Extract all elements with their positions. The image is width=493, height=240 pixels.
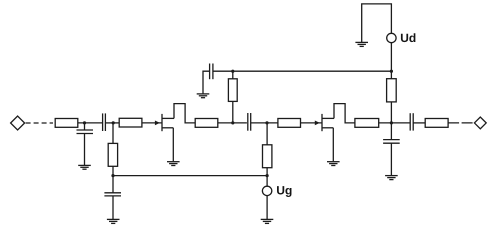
resistor R7 (gate2 series) bbox=[278, 119, 301, 128]
label Ug bbox=[277, 186, 291, 197]
wire Ug rail bbox=[113, 175, 267, 177]
wire C1 to R3 bbox=[105, 122, 119, 124]
wire R7 to gate2 bbox=[301, 122, 323, 124]
resistor R4 (drain1) bbox=[195, 119, 218, 128]
wire C2 to ground bbox=[84, 134, 86, 166]
node drain2 feed bbox=[390, 121, 393, 124]
wire source1 lead bbox=[172, 128, 174, 162]
wire dashed input bbox=[26, 122, 53, 124]
transistor Q2 (MESFET) bbox=[322, 114, 334, 131]
wire node down to C6 bbox=[390, 123, 392, 140]
resistor R8 (drain2) bbox=[355, 119, 379, 128]
wire Ug to ground bbox=[266, 196, 268, 219]
node gate2 bias tap bbox=[265, 121, 268, 124]
resistor R1 bbox=[55, 119, 78, 128]
wire node up to R5 bbox=[232, 101, 234, 123]
node rail/Ud bbox=[390, 70, 393, 73]
wire node up to R9 bbox=[390, 102, 392, 123]
ground (below Ug) bbox=[261, 219, 274, 223]
wire Ud top loop bbox=[362, 4, 392, 42]
capacitor C6 (output bias bypass) bbox=[383, 140, 400, 144]
resistor R9 (drain feed, vertical) bbox=[387, 79, 397, 102]
node drain1 feed bbox=[231, 121, 234, 124]
wire C7 to R10 bbox=[413, 122, 425, 124]
capacitor C4 (rail bypass) bbox=[210, 64, 213, 80]
wire top supply rail bbox=[213, 70, 392, 72]
node at R1/C2 junction bbox=[83, 121, 86, 124]
capacitor C3 (bias bypass to ground) bbox=[104, 193, 121, 196]
ground (below C2) bbox=[78, 165, 91, 169]
source Ud (circle) bbox=[387, 33, 396, 42]
wire R2 to node B bbox=[112, 166, 114, 175]
arrow into gate1 bbox=[155, 121, 160, 126]
wire C3 to ground bbox=[112, 196, 114, 219]
wire R5 to top rail bbox=[232, 71, 234, 79]
ground (Ud return) bbox=[355, 42, 368, 46]
wire R6 to Ug node bbox=[266, 168, 268, 176]
wire node B down to C3 bbox=[112, 176, 114, 193]
ground (below C6) bbox=[385, 176, 398, 180]
wire dashed output bbox=[448, 122, 474, 124]
wire node A down to R2 bbox=[112, 123, 114, 143]
resistor R10 (output) bbox=[425, 119, 448, 128]
node A (gate1 bias tap) bbox=[112, 121, 115, 124]
resistor R3 (gate1 series) bbox=[119, 118, 142, 127]
port P1 (input diamond) bbox=[11, 116, 25, 130]
source Ug (circle) bbox=[262, 186, 271, 195]
ground (source Q2) bbox=[327, 162, 340, 166]
wire R1 to C1 bbox=[78, 122, 103, 124]
wire drain1 lead bbox=[174, 104, 195, 123]
wire R8 to C7 bbox=[379, 122, 411, 124]
capacitor C1 (series input) bbox=[103, 113, 106, 131]
resistor R6 (gate2 bias, vertical) bbox=[263, 145, 272, 168]
wire R4 to C5 bbox=[218, 122, 247, 124]
wire C6 to ground bbox=[390, 143, 392, 175]
transistor Q1 (MESFET) bbox=[162, 114, 174, 131]
label Ud bbox=[401, 33, 415, 42]
wire junction down to C2 bbox=[84, 123, 86, 130]
resistor R2 (gate1 bias, vertical) bbox=[108, 143, 117, 166]
ground (source Q1) bbox=[167, 162, 180, 166]
ground (rail bypass) bbox=[197, 94, 210, 98]
ground (below C3) bbox=[107, 219, 120, 223]
wire C5 to R7 bbox=[251, 122, 278, 124]
wire R3 to gate1 bbox=[142, 122, 162, 124]
wire node down to R6 bbox=[266, 123, 268, 145]
arrow into gate2 bbox=[315, 121, 320, 126]
node B (Ug rail left end) bbox=[111, 174, 114, 177]
wire R9 to Ud bbox=[390, 43, 392, 79]
resistor R5 (feed, vertical) bbox=[228, 79, 237, 102]
node rail/R5 bbox=[231, 70, 234, 73]
node Ug bbox=[266, 174, 269, 177]
capacitor C2 (shunt to ground) bbox=[77, 130, 94, 134]
capacitor C7 (series output) bbox=[410, 113, 413, 130]
port P2 (output diamond) bbox=[474, 117, 486, 129]
wire drain2 lead bbox=[334, 104, 355, 123]
capacitor C5 (interstage) bbox=[248, 113, 251, 131]
wire source2 lead bbox=[332, 128, 334, 162]
wire C4 to ground bbox=[203, 71, 210, 93]
wire Ug node to source bbox=[266, 176, 268, 187]
